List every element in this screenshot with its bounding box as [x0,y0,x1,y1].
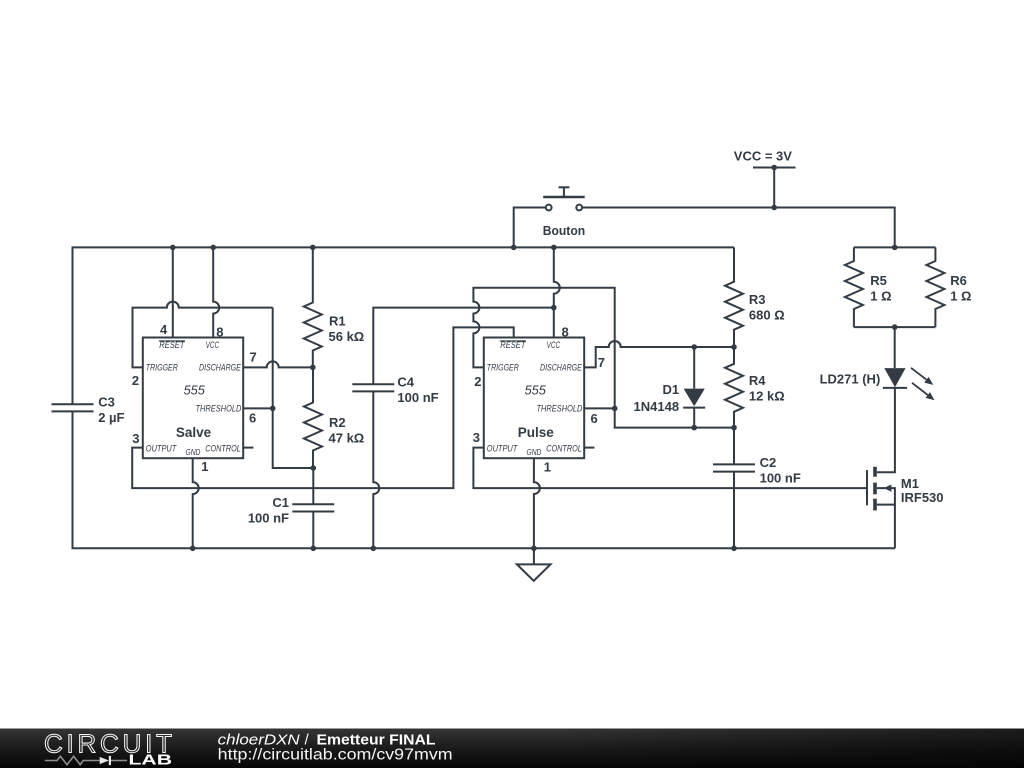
svg-text:680 Ω: 680 Ω [749,308,785,323]
svg-text:Salve: Salve [176,425,212,440]
svg-text:100 nF: 100 nF [397,390,438,405]
svg-text:8: 8 [216,324,223,339]
svg-text:4: 4 [160,322,168,337]
svg-text:3: 3 [132,431,139,446]
svg-text:3: 3 [473,430,480,445]
svg-text:8: 8 [562,324,569,339]
svg-text:GND: GND [527,448,542,457]
svg-text:LD271 (H): LD271 (H) [820,371,881,386]
svg-text:C4: C4 [397,374,414,389]
svg-text:LAB: LAB [129,752,173,768]
svg-text:47 kΩ: 47 kΩ [329,431,365,446]
svg-text:RESET: RESET [500,340,526,351]
svg-text:C1: C1 [272,495,289,510]
svg-text:Pulse: Pulse [518,425,555,440]
svg-text:C3: C3 [98,395,115,410]
svg-text:100 nF: 100 nF [248,510,289,525]
svg-text:1: 1 [544,459,551,474]
svg-text:6: 6 [249,410,256,425]
svg-text:VCC = 3V: VCC = 3V [734,149,792,164]
svg-text:R4: R4 [749,373,766,388]
svg-text:CONTROL: CONTROL [546,443,582,454]
svg-text:R2: R2 [329,415,346,430]
svg-text:IRF530: IRF530 [901,490,944,505]
svg-text:VCC: VCC [547,340,561,351]
svg-text:100 nF: 100 nF [760,471,801,486]
svg-text:R1: R1 [329,314,346,329]
svg-text:1 Ω: 1 Ω [870,289,891,304]
svg-text:http://circuitlab.com/cv97mvm: http://circuitlab.com/cv97mvm [218,746,453,763]
svg-text:VCC: VCC [206,340,220,351]
svg-text:R5: R5 [870,273,887,288]
svg-text:THRESHOLD: THRESHOLD [537,404,583,415]
svg-text:1N4148: 1N4148 [634,399,680,414]
svg-text:7: 7 [250,350,257,365]
svg-text:DISCHARGE: DISCHARGE [199,363,241,374]
svg-text:TRIGGER: TRIGGER [487,363,519,374]
svg-text:D1: D1 [662,382,679,397]
svg-text:6: 6 [591,411,598,426]
svg-text:OUTPUT: OUTPUT [146,443,177,454]
svg-text:C2: C2 [760,455,777,470]
svg-text:555: 555 [184,382,206,397]
svg-text:M1: M1 [901,476,919,491]
svg-text:OUTPUT: OUTPUT [487,443,518,454]
svg-text:2: 2 [132,373,139,388]
svg-text:7: 7 [598,355,605,370]
svg-text:1 Ω: 1 Ω [950,289,971,304]
svg-text:R3: R3 [749,292,766,307]
svg-text:CONTROL: CONTROL [205,443,241,454]
svg-text:12 kΩ: 12 kΩ [749,388,785,403]
svg-text:2: 2 [474,374,481,389]
svg-text:56 kΩ: 56 kΩ [329,329,365,344]
svg-text:2 µF: 2 µF [98,410,124,425]
svg-text:THRESHOLD: THRESHOLD [196,404,242,415]
svg-text:1: 1 [201,459,208,474]
svg-text:RESET: RESET [159,340,185,351]
svg-text:555: 555 [525,382,547,397]
svg-text:R6: R6 [950,273,967,288]
svg-text:DISCHARGE: DISCHARGE [540,363,582,374]
svg-text:TRIGGER: TRIGGER [146,363,178,374]
svg-text:GND: GND [186,448,201,457]
svg-text:Bouton: Bouton [543,223,586,238]
